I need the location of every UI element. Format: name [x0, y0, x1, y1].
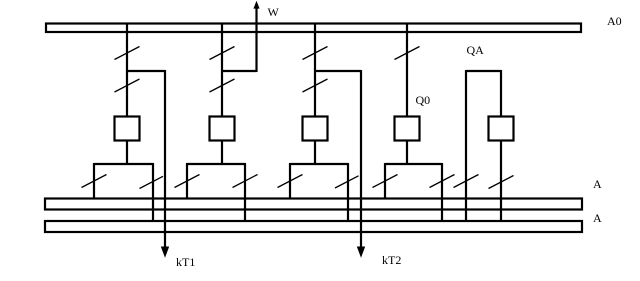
svg-text:kT2: kT2 [382, 253, 401, 267]
svg-text:Q0: Q0 [416, 93, 431, 107]
svg-text:A: A [593, 211, 602, 225]
svg-text:QA: QA [467, 43, 485, 57]
svg-text:kT1: kT1 [176, 255, 195, 269]
svg-text:A: A [593, 177, 602, 191]
svg-text:W: W [268, 5, 280, 19]
svg-text:A0: A0 [607, 14, 622, 28]
